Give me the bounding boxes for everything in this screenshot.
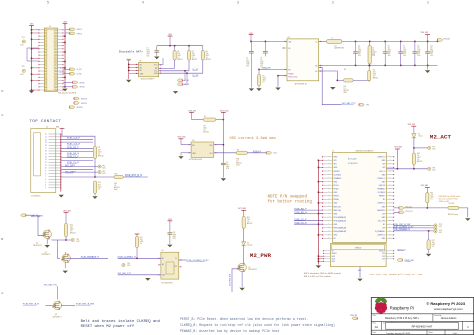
svg-text:3V3: 3V3 [334, 164, 337, 166]
svg-text:3V3: 3V3 [168, 219, 171, 221]
svg-text:5015: 5015 [439, 232, 442, 234]
svg-text:PERST#: PERST# [334, 171, 340, 173]
svg-text:PCIE_RX_N: PCIE_RX_N [67, 153, 80, 155]
wire PCIE_CLK_P [61, 138, 93, 140]
svg-text:10K: 10K [177, 53, 180, 55]
wire caps to ground [250, 56, 252, 86]
svg-text:REFCLKp: REFCLKp [334, 210, 341, 212]
svg-text:for better routing: for better routing [268, 200, 313, 205]
power flag 3V3 above C11 [168, 220, 173, 222]
svg-text:25V: 25V [358, 53, 361, 55]
wire to 3V3_OSC [216, 119, 224, 121]
svg-text:5015: 5015 [102, 173, 106, 175]
power flag 3V3 above U1 [168, 35, 173, 37]
svg-text:TP3: TP3 [76, 239, 79, 241]
J4 lower left pins [324, 250, 331, 252]
ground below C1 [154, 57, 159, 60]
svg-text:R6: R6 [373, 70, 375, 72]
J1 pin squares and stubs [45, 29, 47, 31]
ground output caps [427, 65, 429, 69]
svg-text:1-1734839-0: 1-1734839-0 [31, 196, 41, 198]
svg-text:Stackable HAT+: Stackable HAT+ [119, 49, 144, 53]
svg-text:22: 22 [45, 134, 47, 136]
IC U3 oscillator [191, 142, 214, 157]
svg-text:PCIE_RX_P: PCIE_RX_P [67, 147, 80, 149]
ground below R10 [94, 193, 96, 195]
svg-text:PERST_B: PCIe Reset. When asse: PERST_B: PCIe Reset. When asserted low t… [180, 317, 308, 321]
testpoint arrow TP9 [399, 207, 404, 210]
svg-text:C9: C9 [226, 162, 228, 164]
svg-text:0402: 0402 [98, 151, 102, 153]
svg-text:10u: 10u [246, 60, 249, 62]
svg-text:5015: 5015 [20, 45, 24, 47]
svg-text:M2_PWR_EN: M2_PWR_EN [230, 274, 232, 286]
wire left 5V bus [31, 26, 33, 90]
svg-text:GND on M2: GND on M2 [439, 201, 450, 203]
svg-text:Belt and braces isolate CLKREQ: Belt and braces isolate CLKREQ and [81, 319, 160, 324]
transistor Q3 [62, 254, 70, 262]
wire PCIE_RST_B row [61, 176, 114, 178]
svg-text:100K: 100K [262, 77, 266, 79]
wire pullup rail [157, 45, 203, 47]
svg-text:12: 12 [45, 162, 47, 164]
off-page arrow DET_WAKE [21, 214, 26, 217]
LED D2 orange [242, 242, 246, 246]
svg-text:0402: 0402 [226, 166, 230, 168]
svg-text:AP3441SHE-7B: AP3441SHE-7B [295, 82, 308, 85]
svg-text:PCIE_TX_N: PCIE_TX_N [295, 222, 307, 224]
wire PCIE_CLKREQ_N_R2 out [179, 259, 186, 261]
svg-text:C8: C8 [417, 45, 419, 47]
connector J1 40-pin GPIO header body [44, 28, 57, 92]
wire input rail [250, 36, 252, 41]
svg-text:DET_PWR: DET_PWR [65, 165, 75, 167]
gnd bar above U1 left bus [126, 58, 131, 60]
J4 left pins [323, 156, 333, 158]
ground below Q3 [63, 271, 68, 274]
svg-text:5V0: 5V0 [30, 24, 33, 26]
ground below C9 [221, 178, 226, 181]
svg-text:PWR_WK: PWR_WK [350, 315, 358, 317]
resistor R3 [202, 46, 204, 51]
wire ID_SD to arrow [63, 73, 70, 75]
wire OUT to R9 [214, 152, 237, 154]
svg-text:C7: C7 [403, 45, 405, 47]
off-page arrows ID_SD ID_SC top right of J1 [65, 29, 70, 31]
svg-text:SUSCLK: SUSCLK [253, 151, 262, 153]
svg-text:20: 20 [45, 139, 47, 141]
svg-text:0402: 0402 [262, 79, 266, 81]
wire 3V3_SB1_PTC into U5 [118, 274, 161, 276]
svg-text:CLKREQ_B: Request to run/stop: CLKREQ_B: Request to run/stop ref clk (a… [180, 323, 335, 327]
svg-text:R2: R2 [192, 51, 194, 53]
svg-text:CONFIG_0: CONFIG_0 [377, 235, 385, 237]
svg-text:5015: 5015 [439, 226, 442, 228]
svg-text:0402: 0402 [236, 165, 240, 167]
svg-text:GPIO26: GPIO26 [76, 107, 82, 109]
wire SCL row ID_SC [159, 70, 189, 72]
resistor R17 [427, 240, 430, 250]
connector J2 top contact body [31, 129, 56, 193]
U5 pin stubs [159, 257, 161, 259]
wire PCIE_RX_P [61, 148, 93, 150]
capacitor C3 input [264, 41, 266, 51]
svg-text:100n: 100n [173, 234, 177, 236]
svg-text:C6: C6 [388, 45, 390, 47]
svg-text:R9: R9 [237, 149, 239, 151]
off-page arrow SUSCLK [266, 152, 271, 155]
svg-text:CLKREQ#: CLKREQ# [334, 174, 342, 176]
svg-text:SCL: SCL [154, 71, 157, 73]
svg-text:L1: L1 [332, 37, 334, 39]
wire SUSCLK [247, 152, 266, 154]
svg-text:Y1: Y1 [175, 258, 177, 260]
off-page arrow PWR_WK [397, 259, 402, 262]
svg-text:© Raspberry Pi 2023: © Raspberry Pi 2023 [426, 301, 466, 306]
svg-text:PETn0: PETn0 [334, 185, 339, 187]
ground R15 [465, 218, 470, 221]
resistor R15 0R [448, 206, 459, 209]
U1 pin stubs [159, 64, 161, 66]
svg-text:C4: C4 [358, 45, 360, 47]
svg-text:U2: U2 [288, 37, 290, 39]
svg-text:GPIO13: GPIO13 [81, 98, 87, 100]
wire J4 gnd bottom [359, 267, 361, 278]
svg-text:C5: C5 [372, 47, 374, 49]
svg-text:TP5: TP5 [366, 105, 369, 107]
svg-text:R13: R13 [417, 153, 420, 155]
ground below ID arrows [175, 87, 177, 91]
wire R15 to ground [459, 208, 468, 218]
svg-text:25V: 25V [372, 53, 375, 55]
svg-text:3V3_OSC: 3V3_OSC [220, 110, 230, 112]
svg-text:PCIE_RST_B_RW: PCIE_RST_B_RW [76, 304, 95, 306]
wires PCIE RX TX into J4 [294, 209, 323, 211]
svg-text:PCIE_RST_B_R: PCIE_RST_B_R [125, 175, 142, 177]
wire DET_WAKE to Q1 gate [26, 215, 43, 236]
svg-text:R17: R17 [432, 240, 435, 242]
svg-text:R11: R11 [140, 237, 143, 239]
testpoint TP13 [434, 230, 437, 233]
svg-text:3V3_M2: 3V3_M2 [408, 124, 416, 126]
svg-text:1K: 1K [417, 155, 419, 157]
svg-text:5015: 5015 [102, 167, 106, 169]
svg-text:J4: J4 [332, 150, 334, 152]
wire WP row [159, 67, 175, 69]
svg-text:0402: 0402 [192, 55, 196, 57]
svg-text:10K: 10K [192, 53, 195, 55]
svg-text:PERST#: PERST# [379, 196, 385, 198]
svg-text:U3: U3 [192, 140, 194, 142]
wire R17 to PEWAKE row [428, 231, 430, 240]
svg-text:R16: R16 [430, 193, 433, 195]
svg-text:PCIE_CLK_N: PCIE_CLK_N [67, 144, 81, 146]
wire R8 to PCIE_RST_B node [94, 159, 96, 177]
svg-text:18: 18 [45, 145, 47, 147]
wire PCIE_RST_B_RW row [394, 224, 432, 226]
svg-text:CONFIG_3: CONFIG_3 [377, 157, 385, 159]
svg-text:PCIE_RST_B_R: PCIE_RST_B_R [23, 304, 40, 306]
svg-text:CONFIG_1: CONFIG_1 [377, 203, 385, 205]
svg-text:21: 21 [45, 137, 47, 139]
svg-text:10K: 10K [432, 242, 435, 244]
svg-text:3V3_SB1_PTC: 3V3_SB1_PTC [342, 103, 357, 105]
off-page arrow 3V3_M2 [437, 41, 439, 43]
raspberry pi logo [374, 297, 387, 314]
svg-text:3V3: 3V3 [168, 34, 171, 36]
svg-text:James Adams: James Adams [441, 317, 457, 320]
svg-text:SHLD is NC on PCIe module: SHLD is NC on PCIe module [304, 276, 332, 278]
svg-text:TP5: TP5 [102, 171, 105, 173]
svg-text:SHLD shorted to GND on NGFF mo: SHLD shorted to GND on NGFF module [304, 272, 342, 275]
svg-text:GPIO6: GPIO6 [79, 87, 84, 89]
svg-text:0402: 0402 [260, 62, 264, 64]
svg-text:M2_ACT: M2_ACT [430, 134, 452, 141]
wire FB to bottom rail [319, 64, 438, 66]
wire 3V3 to pullup R8 [62, 130, 95, 147]
resistor R11 pullup [135, 233, 140, 235]
svg-text:10K: 10K [430, 195, 433, 197]
svg-text:WP: WP [155, 68, 158, 70]
svg-text:TOP CONTACT: TOP CONTACT [29, 120, 61, 124]
svg-text:C1: C1 [147, 48, 149, 50]
svg-text:2N7002ET-7: 2N7002ET-7 [33, 245, 42, 247]
resistor R4 enable divider [258, 69, 260, 74]
svg-text:GPIO19: GPIO19 [81, 103, 87, 105]
svg-text:Title:: Title: [373, 314, 377, 317]
svg-text:A2: A2 [375, 325, 379, 329]
testpoint TP3 [66, 239, 71, 241]
U2 pin stubs [285, 40, 287, 42]
svg-text:R10: R10 [98, 182, 101, 184]
power flag 5V0 left of J1 [29, 25, 34, 27]
J4 right pins [387, 156, 394, 158]
svg-text:U1: U1 [139, 60, 141, 62]
resistor R10 pulldown [93, 181, 96, 193]
wire R5 to R6 [353, 79, 369, 81]
svg-text:PETp0: PETp0 [334, 189, 339, 191]
svg-text:B: B [1, 237, 3, 241]
svg-text:0402: 0402 [177, 55, 181, 57]
svg-text:Q2: Q2 [248, 267, 250, 269]
wire PCIE_CLKREQ_N row [61, 171, 98, 173]
svg-text:R14: R14 [247, 217, 250, 219]
svg-text:RESET: RESET [332, 253, 337, 255]
ground below left bus [29, 91, 34, 94]
svg-text:2K0: 2K0 [247, 219, 250, 221]
svg-text:1: 1 [427, 1, 429, 5]
capacitor C5 polymer [369, 41, 371, 45]
svg-text:R8: R8 [98, 147, 100, 149]
svg-text:PEWAKE_B: Asserted low by devi: PEWAKE_B: Asserted low by device to wake… [180, 329, 280, 333]
svg-text:5015: 5015 [432, 169, 436, 171]
svg-text:3V3: 3V3 [382, 259, 385, 261]
svg-text:4: 4 [142, 1, 144, 5]
svg-text:M2_PWR: M2_PWR [250, 252, 272, 259]
wire VDD feed [214, 120, 224, 145]
svg-text:3V3: 3V3 [382, 253, 385, 255]
svg-text:PCIE_RX_N: PCIE_RX_N [295, 212, 308, 214]
wire PCIE_RST_B_R out [123, 176, 148, 178]
svg-text:PERp0: PERp0 [334, 199, 339, 201]
wire PCIE_TX_P [61, 157, 93, 159]
wire PCIE_CLKREQ_N into U5 [118, 257, 161, 259]
svg-text:3V3_OSC: 3V3_OSC [177, 137, 186, 139]
svg-text:3V3: 3V3 [63, 22, 66, 24]
svg-text:3V3_SB1_PTC: 3V3_SB1_PTC [118, 273, 132, 275]
svg-text:FREQ_SYNC: FREQ_SYNC [288, 76, 298, 78]
svg-text:TP1: TP1 [22, 37, 25, 39]
svg-text:A: A [1, 291, 3, 295]
resistor R13 series [114, 175, 123, 178]
off-page arrow PWR_WK near title [352, 317, 357, 320]
svg-text:16: 16 [45, 151, 47, 153]
wire right GND bus of J1 [64, 24, 66, 88]
svg-text:LED_1#: LED_1# [379, 171, 385, 173]
svg-text:ID_SC: ID_SC [77, 69, 83, 71]
ground input caps [249, 88, 254, 91]
wire PCIE_PEWAKE_N from Q3 drain [64, 252, 66, 255]
svg-text:ID_SC: ID_SC [60, 68, 66, 70]
svg-text:4K7: 4K7 [98, 184, 101, 186]
svg-text:R3: R3 [206, 51, 208, 53]
svg-text:0402: 0402 [358, 49, 362, 51]
wire ID_SC to arrow [63, 68, 70, 70]
inductor L1 [319, 40, 327, 42]
svg-text:3V3_SB1: 3V3_SB1 [238, 208, 246, 210]
svg-text:25V: 25V [403, 53, 406, 55]
off-page arrows below J1 [74, 97, 79, 100]
svg-text:TP10 5015: TP10 5015 [405, 211, 413, 213]
wire SDA row ID_SD [159, 72, 203, 74]
svg-text:GPIO5: GPIO5 [79, 82, 84, 84]
svg-text:R1: R1 [177, 51, 179, 53]
wire R14 to LED D2 [243, 228, 245, 241]
testpoint TP12 [434, 227, 437, 230]
wire PCIE_PEWAKE_N row [394, 230, 434, 232]
svg-text:10n: 10n [226, 164, 229, 166]
svg-text:Size: Size [373, 323, 376, 325]
svg-text:LQM2HPZ1R0: LQM2HPZ1R0 [334, 48, 344, 50]
svg-text:100n: 100n [147, 50, 151, 52]
wire to Q4 top [56, 286, 58, 299]
testpoint TP11 [434, 224, 437, 227]
svg-text:3V3_M2: 3V3_M2 [443, 39, 449, 41]
svg-text:15: 15 [45, 154, 47, 156]
IC U5 buffer [161, 252, 179, 279]
wire M2_PWR_EN to Q2 gate [232, 269, 238, 292]
svg-text:SUSCLK: SUSCLK [379, 251, 385, 253]
power flag 3V3 right of J1 [63, 23, 68, 25]
svg-text:GPIO3: GPIO3 [77, 33, 82, 35]
power flag 3V3 at J2 [60, 127, 65, 129]
wire to R12 [65, 214, 67, 223]
svg-text:5V0: 5V0 [249, 33, 252, 35]
ground R17 [426, 254, 431, 257]
svg-text:OSC current 3.5mA max: OSC current 3.5mA max [230, 137, 277, 141]
svg-text:3V3_M2: 3V3_M2 [421, 32, 429, 34]
svg-text:SHIELD: SHIELD [355, 247, 362, 249]
svg-text:Green: Green [418, 136, 423, 138]
svg-text:0402: 0402 [173, 236, 177, 238]
ground below R4 [256, 88, 261, 91]
wire PCIE_RX_N [61, 151, 93, 153]
off-page arrows GPIO pair right of J1 [63, 81, 73, 83]
svg-text:RP-M2HKEY-HAT: RP-M2HKEY-HAT [412, 325, 433, 329]
J4 left gnd bus [317, 160, 319, 264]
svg-text:3V3: 3V3 [382, 213, 385, 215]
svg-text:TP2: TP2 [22, 66, 25, 68]
svg-text:FB: FB [315, 65, 317, 67]
wire FREQ pin to ground [278, 76, 287, 87]
svg-text:PCIE_CLKREQ_N_R2: PCIE_CLKREQ_N_R2 [186, 260, 209, 262]
ground FREQ [275, 88, 280, 91]
svg-text:C2: C2 [246, 58, 248, 60]
testpoint TP6 [122, 263, 125, 266]
wire Q1 source to ground [46, 238, 48, 244]
svg-text:3: 3 [237, 1, 239, 5]
svg-text:PCIE_CLKREQ_N_R2: PCIE_CLKREQ_N_R2 [393, 227, 414, 229]
ground U3 [178, 156, 183, 159]
ground J4 bottom [357, 279, 362, 282]
svg-text:PCIE_RX_P: PCIE_RX_P [295, 208, 308, 210]
J2 gnd bus [60, 134, 62, 192]
svg-text:TP13: TP13 [439, 230, 443, 232]
svg-text:0402: 0402 [98, 186, 102, 188]
svg-text:3V3: 3V3 [382, 164, 385, 166]
svg-text:3V3_M2: 3V3_M2 [188, 110, 196, 112]
svg-text:PERn0: PERn0 [334, 196, 339, 198]
svg-text:PCIE_CLKREQ_N: PCIE_CLKREQ_N [118, 257, 137, 259]
wire D1 to row1 [413, 138, 415, 148]
svg-text:VIO_CFG: VIO_CFG [378, 220, 386, 222]
resistor R9 [236, 151, 247, 154]
svg-text:PCIE_TX_P: PCIE_TX_P [295, 219, 307, 221]
wire GND pin of U3 [181, 153, 191, 156]
left bus of U1 [128, 61, 130, 79]
testpoint TP5 [98, 171, 101, 174]
connector J4 M.2 socket body [332, 153, 386, 243]
svg-text:TP11: TP11 [439, 224, 442, 226]
wire PCIE_TX_N [61, 159, 93, 161]
svg-text:0402: 0402 [403, 49, 407, 51]
svg-text:3V3: 3V3 [382, 256, 385, 258]
wire PCIE_RST_B_RW out of Q4 [61, 304, 75, 306]
svg-text:0402: 0402 [432, 244, 436, 246]
svg-text:13: 13 [45, 159, 47, 161]
svg-text:D1: D1 [418, 134, 420, 136]
svg-text:CLKREQ#: CLKREQ# [378, 192, 386, 194]
svg-text:PCIE_CLK_P: PCIE_CLK_P [67, 138, 81, 140]
svg-text:3V3: 3V3 [382, 228, 385, 230]
svg-text:0402: 0402 [140, 241, 144, 243]
svg-text:RESET when M2 power off: RESET when M2 power off [81, 324, 135, 329]
svg-text:0402: 0402 [373, 74, 377, 76]
testpoint TP8 row2 [428, 167, 431, 170]
svg-text:0402: 0402 [417, 157, 421, 159]
capacitor C11 [168, 232, 173, 234]
svg-text:C11: C11 [173, 232, 176, 234]
svg-text:TP4: TP4 [102, 165, 105, 167]
wire Q2 source to ground [241, 271, 243, 287]
svg-text:Q1: Q1 [36, 243, 38, 245]
svg-text:0402: 0402 [246, 62, 250, 64]
svg-text:15u: 15u [372, 49, 375, 51]
svg-text:3V3: 3V3 [382, 167, 385, 169]
svg-text:0402: 0402 [206, 55, 210, 57]
svg-text:15u: 15u [403, 47, 406, 49]
wire jog left of J1 [27, 48, 39, 61]
